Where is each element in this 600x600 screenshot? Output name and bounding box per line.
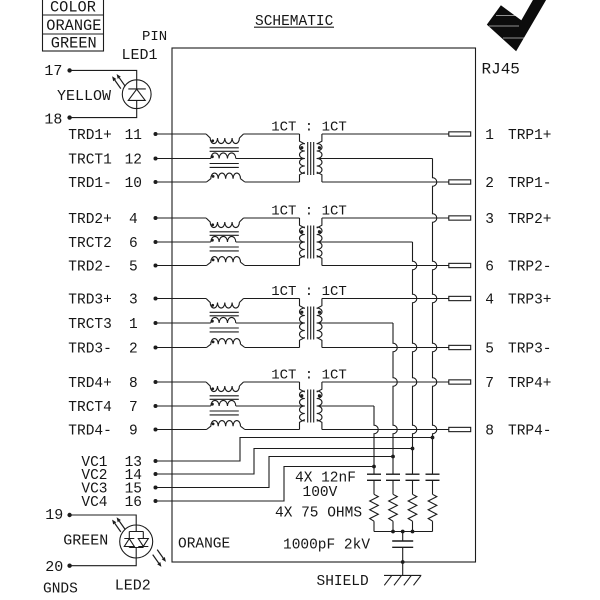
svg-text:2: 2	[485, 176, 494, 192]
svg-text:ORANGE: ORANGE	[46, 17, 101, 35]
wire T3 secondary center tap to bus	[317, 322, 393, 324]
svg-text:VC4: VC4	[81, 495, 107, 511]
wire T4 secondary center tap to bus	[317, 405, 374, 407]
choke L1 bottom winding polarity dot	[212, 175, 215, 178]
pin dot TRD4+	[154, 380, 158, 384]
choke L1 middle winding	[211, 153, 236, 159]
RJ45 module outline box	[172, 48, 476, 562]
svg-text:ORANGE: ORANGE	[178, 536, 230, 552]
wire T1 secondary- to RJ45 pin 2	[322, 181, 449, 183]
pin dot VC4	[154, 499, 158, 503]
transformer T3 primary polarity dot	[300, 311, 303, 314]
wire TRCT2 to choke	[156, 241, 211, 243]
pin dot TRD4-	[154, 428, 158, 432]
svg-text:1: 1	[485, 128, 494, 144]
wire TRD4- to choke	[156, 429, 207, 431]
wire TRCT3 to choke	[156, 322, 211, 324]
svg-text:TRP1-: TRP1-	[508, 176, 552, 192]
choke L1 top winding polarity dot	[211, 139, 214, 142]
svg-text:TRD3-: TRD3-	[68, 342, 112, 358]
transformer T1 secondary top lead	[317, 134, 322, 144]
wire pin17 to LED1 anode	[70, 70, 137, 79]
svg-text:TRP4-: TRP4-	[508, 424, 552, 440]
transformer T2 secondary bottom lead	[317, 256, 322, 266]
wire TRD1- to choke	[156, 181, 207, 183]
svg-text:TRCT4: TRCT4	[68, 400, 112, 416]
pin dot TRCT4	[154, 404, 158, 408]
color legend table	[43, 0, 104, 51]
choke L2 bottom winding	[207, 257, 241, 266]
transformer T2 secondary winding	[317, 227, 322, 257]
svg-text:1CT : 1CT: 1CT : 1CT	[271, 204, 347, 220]
wire TRD3- to choke	[156, 347, 207, 349]
svg-text:1000pF 2kV: 1000pF 2kV	[283, 538, 370, 554]
choke L3 core lower pair	[210, 327, 239, 329]
transformer T3 secondary top lead	[317, 299, 322, 309]
capacitor C2 12nF	[386, 473, 400, 475]
wire choke L2 to transformer T2 top	[244, 217, 300, 219]
wire T3 secondary+ to RJ45 pin 4	[322, 298, 449, 300]
pin dot VC3	[154, 486, 158, 490]
wire choke L3 to transformer T3 top	[244, 298, 300, 300]
junction shield-case	[401, 560, 405, 564]
choke L1 bottom winding	[207, 173, 241, 182]
svg-text:TRD4+: TRD4+	[68, 376, 112, 392]
junction VC3 bus	[391, 455, 395, 459]
transformer T1 secondary polarity dot	[318, 146, 321, 149]
transformer T2 primary polarity dot	[300, 230, 303, 233]
wire R3 to common rail	[412, 521, 414, 531]
resistor R1 75 ohms	[370, 494, 379, 521]
svg-text:19: 19	[45, 507, 63, 524]
wire C1 to R1	[373, 480, 375, 494]
pin 17 terminal dot	[67, 68, 71, 72]
center-tap bus VC1 vertical	[433, 159, 437, 475]
wire R1 to common rail	[373, 521, 375, 531]
choke L4 middle winding polarity dot	[211, 403, 214, 406]
common rail	[374, 531, 433, 533]
pin dot TRD3-	[154, 346, 158, 350]
choke L2 middle winding polarity dot	[211, 239, 214, 242]
transformer T3 secondary bottom lead	[317, 338, 322, 348]
svg-text:TRD2+: TRD2+	[68, 212, 112, 228]
choke L4 middle winding	[211, 400, 236, 406]
choke L3 bottom winding	[207, 339, 241, 348]
choke L4 bottom winding	[207, 421, 241, 430]
LED2 bidirectional diodes	[124, 532, 148, 548]
junction rail-R3	[411, 530, 415, 534]
svg-text:GNDS: GNDS	[43, 582, 78, 598]
choke L3 middle winding	[211, 317, 236, 323]
wire choke L3 to transformer T3 bottom	[245, 347, 300, 349]
wire LED2 to pin20	[70, 548, 137, 566]
wire VC2 to bus	[156, 449, 413, 475]
wire VC4 to bus	[156, 467, 375, 502]
pin dot VC2	[154, 472, 158, 476]
RJ45 pin stub 5	[449, 345, 471, 349]
transformer T4 primary winding	[299, 391, 304, 421]
svg-text:TRD1-: TRD1-	[68, 176, 112, 192]
wire T2 secondary+ to RJ45 pin 3	[322, 217, 449, 219]
svg-text:17: 17	[44, 63, 62, 80]
wire choke L1 to transformer T1 center tap	[236, 158, 305, 160]
svg-text:1CT : 1CT: 1CT : 1CT	[271, 284, 347, 300]
pin dot TRD1+	[154, 132, 158, 136]
wire T4 secondary+ to RJ45 pin 7	[322, 381, 449, 383]
junction VC1 bus	[431, 436, 435, 440]
wire TRD2- to choke	[156, 265, 207, 267]
transformer T4 core	[307, 390, 309, 423]
resistor R3 75 ohms	[408, 494, 417, 521]
wire C3 to R3	[412, 480, 414, 494]
transformer T1 primary top lead	[300, 134, 305, 144]
choke L3 core upper pair	[210, 311, 239, 313]
LED2 emission arrow up-left 1	[119, 521, 125, 530]
pin dot TRCT1	[154, 157, 158, 161]
svg-text:1CT : 1CT: 1CT : 1CT	[271, 368, 347, 384]
svg-text:TRD2-: TRD2-	[68, 260, 112, 276]
LED1 emission arrow 2	[115, 80, 121, 89]
pin dot TRCT3	[154, 321, 158, 325]
capacitor C4 12nF	[426, 473, 440, 475]
junction rail-R2	[391, 530, 395, 534]
transformer T4 secondary bottom lead	[317, 420, 322, 430]
center-tap bus VC3 vertical	[393, 323, 397, 474]
RJ45 pin stub 6	[449, 263, 471, 267]
svg-text:4: 4	[129, 212, 138, 228]
svg-text:3: 3	[485, 212, 494, 228]
title underline	[254, 26, 334, 28]
junction VC4 bus	[372, 465, 376, 469]
svg-text:9: 9	[129, 424, 138, 440]
wire rail to C5	[402, 532, 404, 542]
resistor R4 75 ohms	[428, 494, 437, 521]
wire VC3 to bus	[156, 457, 394, 488]
wire TRD3+ to choke	[156, 298, 207, 300]
wire T1 secondary+ to RJ45 pin 1	[322, 133, 449, 135]
transformer T4 secondary winding	[317, 391, 322, 421]
svg-text:TRD1+: TRD1+	[68, 128, 112, 144]
svg-text:TRCT1: TRCT1	[68, 153, 112, 169]
wire T2 secondary- to RJ45 pin 6	[322, 265, 449, 267]
wire T4 secondary- to RJ45 pin 8	[322, 429, 449, 431]
wire C2 to R2	[392, 480, 394, 494]
choke L2 top winding polarity dot	[211, 223, 214, 226]
wire C4 to R4	[432, 480, 434, 494]
choke L2 core lower pair	[210, 246, 239, 248]
pin 20 terminal dot	[67, 564, 71, 568]
wire choke L4 to transformer T4 center tap	[236, 405, 305, 407]
LED2 emission arrow up-left 2	[115, 523, 121, 532]
choke L4 core upper pair	[210, 395, 239, 397]
transformer T2 primary bottom lead	[300, 256, 305, 266]
transformer T1 primary bottom lead	[300, 172, 305, 182]
center-tap bus VC2 vertical	[413, 242, 417, 474]
transformer T1 primary polarity dot	[300, 146, 303, 149]
svg-text:8: 8	[485, 424, 494, 440]
wire choke L3 to transformer T3 center tap	[236, 322, 305, 324]
LED1 emission arrow 1	[119, 78, 125, 87]
wire C5 to shield ground	[402, 547, 404, 575]
svg-text:SHIELD: SHIELD	[317, 574, 369, 590]
wire T3 secondary- to RJ45 pin 5	[322, 347, 449, 349]
transformer T4 secondary polarity dot	[318, 394, 321, 397]
transformer T2 primary top lead	[300, 218, 305, 228]
resistor R2 75 ohms	[389, 494, 398, 521]
transformer T1 primary winding	[299, 144, 304, 174]
wire R4 to common rail	[432, 521, 434, 531]
choke L1 top winding	[206, 134, 239, 144]
svg-text:10: 10	[125, 176, 142, 192]
pin dot TRD3+	[154, 297, 158, 301]
choke L2 middle winding	[211, 236, 236, 242]
LED2 body circle	[120, 525, 153, 558]
svg-text:5: 5	[129, 260, 138, 276]
svg-text:7: 7	[485, 376, 494, 392]
center-tap bus VC4 vertical	[374, 406, 378, 474]
checkmark	[488, 0, 546, 51]
transformer T3 core	[307, 307, 309, 340]
choke L1 middle winding polarity dot	[211, 155, 214, 158]
svg-text:12: 12	[125, 153, 142, 169]
wire choke L2 to transformer T2 bottom	[245, 265, 300, 267]
svg-text:TRP3-: TRP3-	[508, 342, 552, 358]
choke L4 top winding polarity dot	[211, 387, 214, 390]
wire TRCT4 to choke	[156, 405, 211, 407]
svg-text:1CT : 1CT: 1CT : 1CT	[271, 120, 347, 136]
svg-text:8: 8	[129, 376, 138, 392]
capacitor C3 12nF	[406, 473, 420, 475]
svg-text:TRP2+: TRP2+	[508, 212, 552, 228]
svg-text:TRP1+: TRP1+	[508, 128, 552, 144]
svg-text:TRP4+: TRP4+	[508, 376, 552, 392]
svg-text:COLOR: COLOR	[50, 0, 96, 17]
svg-text:2: 2	[129, 342, 138, 358]
pin dot TRCT2	[154, 240, 158, 244]
junction VC2 bus	[411, 447, 415, 451]
capacitor C5 1000pF 2kV	[392, 540, 413, 542]
transformer T2 secondary polarity dot	[318, 230, 321, 233]
svg-text:TRCT3: TRCT3	[68, 317, 112, 333]
svg-text:11: 11	[125, 128, 142, 144]
choke L1 core upper pair	[210, 147, 239, 149]
wire choke L4 to transformer T4 top	[244, 381, 300, 383]
svg-text:LED2: LED2	[115, 578, 151, 595]
RJ45 pin stub 7	[449, 380, 471, 384]
transformer T3 primary top lead	[300, 299, 305, 309]
RJ45 pin stub 8	[449, 427, 471, 431]
transformer T3 primary winding	[299, 308, 304, 338]
wire choke L2 to transformer T2 center tap	[236, 241, 305, 243]
svg-text:7: 7	[129, 400, 138, 416]
svg-text:4: 4	[485, 293, 494, 309]
choke L3 middle winding polarity dot	[211, 320, 214, 323]
wire VC1 to bus	[156, 438, 433, 462]
wire T1 secondary center tap to bus	[317, 158, 433, 160]
svg-text:1: 1	[129, 317, 138, 333]
wire choke L1 to transformer T1 bottom	[245, 181, 300, 183]
svg-text:6: 6	[485, 260, 494, 276]
LED2 emission arrow down-right 1	[157, 550, 163, 559]
transformer T4 primary top lead	[300, 382, 305, 392]
capacitor C1 12nF	[367, 473, 381, 475]
choke L3 top winding	[206, 299, 239, 309]
wire TRD2+ to choke	[156, 217, 207, 219]
choke L2 top winding	[206, 218, 239, 228]
choke L1 core lower pair	[210, 163, 239, 165]
svg-text:YELLOW: YELLOW	[57, 88, 111, 105]
chassis ground shield symbol	[384, 575, 421, 585]
pin 19 terminal dot	[67, 513, 71, 517]
choke L2 core upper pair	[210, 231, 239, 233]
transformer T1 secondary bottom lead	[317, 172, 322, 182]
wire T2 secondary center tap to bus	[317, 241, 413, 243]
transformer T1 core	[307, 142, 309, 175]
RJ45 pin stub 4	[449, 296, 471, 300]
wire TRD4+ to choke	[156, 381, 207, 383]
svg-text:20: 20	[45, 559, 63, 576]
LED2 emission arrow down-right 2	[153, 555, 159, 564]
transformer T4 primary polarity dot	[300, 394, 303, 397]
svg-text:GREEN: GREEN	[51, 35, 97, 53]
svg-text:TRP3+: TRP3+	[508, 293, 552, 309]
transformer T4 primary bottom lead	[300, 420, 305, 430]
svg-text:TRD4-: TRD4-	[68, 424, 112, 440]
choke L4 core lower pair	[210, 410, 239, 412]
svg-text:18: 18	[44, 112, 62, 129]
choke L2 bottom winding polarity dot	[212, 259, 215, 262]
pin 18 terminal dot	[67, 115, 71, 119]
svg-text:RJ45: RJ45	[482, 61, 520, 79]
choke L3 top winding polarity dot	[211, 304, 214, 307]
choke L4 top winding	[206, 382, 239, 392]
RJ45 pin stub 2	[449, 180, 471, 184]
junction rail-C5	[401, 530, 405, 534]
wire pin19 to LED2	[70, 515, 137, 532]
svg-text:6: 6	[129, 236, 138, 252]
transformer T3 primary bottom lead	[300, 338, 305, 348]
transformer T3 secondary polarity dot	[318, 311, 321, 314]
pin dot TRD2-	[154, 264, 158, 268]
wire choke L1 to transformer T1 top	[244, 133, 300, 135]
LED1 diode symbol	[128, 80, 146, 109]
transformer T4 secondary top lead	[317, 382, 322, 392]
svg-text:PIN: PIN	[142, 29, 167, 45]
pin dot TRD2+	[154, 216, 158, 220]
transformer T2 core	[307, 226, 309, 259]
pin dot VC1	[154, 459, 158, 463]
transformer T1 secondary winding	[317, 144, 322, 174]
choke L3 bottom winding polarity dot	[212, 341, 215, 344]
choke L4 bottom winding polarity dot	[212, 423, 215, 426]
svg-text:4X 75 OHMS: 4X 75 OHMS	[275, 506, 362, 522]
svg-text:16: 16	[125, 495, 142, 511]
transformer T3 secondary winding	[317, 308, 322, 338]
svg-text:LED1: LED1	[122, 47, 158, 64]
transformer T2 primary winding	[299, 227, 304, 257]
transformer T2 secondary top lead	[317, 218, 322, 228]
svg-text:TRP2-: TRP2-	[508, 260, 552, 276]
RJ45 pin stub 3	[449, 216, 471, 220]
LED1 body circle	[122, 80, 151, 109]
wire choke L4 to transformer T4 bottom	[245, 429, 300, 431]
svg-text:100V: 100V	[303, 485, 338, 501]
RJ45 pin stub 1	[449, 132, 471, 136]
svg-text:TRD3+: TRD3+	[68, 293, 112, 309]
svg-text:TRCT2: TRCT2	[68, 236, 112, 252]
svg-text:3: 3	[129, 293, 138, 309]
wire LED1 cathode to pin18	[70, 109, 137, 118]
wire TRCT1 to choke	[156, 158, 211, 160]
svg-text:GREEN: GREEN	[63, 533, 108, 550]
wire R2 to common rail	[392, 521, 394, 531]
pin dot TRD1-	[154, 180, 158, 184]
svg-text:5: 5	[485, 342, 494, 358]
wire TRD1+ to choke	[156, 133, 207, 135]
